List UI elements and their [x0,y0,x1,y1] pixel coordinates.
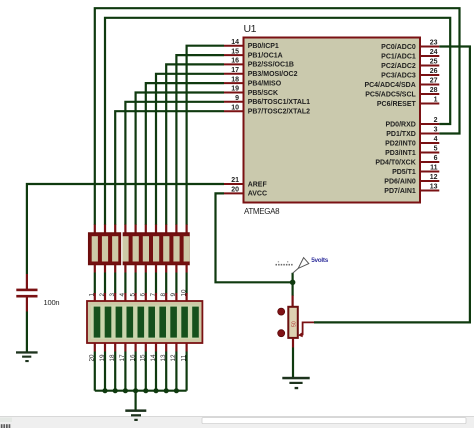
svg-text:13: 13 [160,354,167,362]
svg-text:6: 6 [434,155,438,162]
wire pack pin 1 to PD1/TXD (outer loop) [95,8,460,225]
pin 27 (PC4/ADC4/SDA) stub [364,78,439,89]
svg-text:U1: U1 [244,23,257,35]
wire PB0 to resistor pack pin 10 [187,46,224,225]
svg-text:PB7/TOSC2/XTAL2: PB7/TOSC2/XTAL2 [248,109,310,116]
ground (pot) [282,377,309,389]
resistor pack RN2 body (pins 4-10) [122,233,189,265]
wire PB2 to resistor pack pin 8 [166,64,224,225]
LED bargraph top pin stubs [95,293,187,302]
wire bargraph pin 14 to ground bus [150,352,157,391]
svg-text:17: 17 [231,67,239,74]
svg-text:9: 9 [235,95,239,102]
pin 18 (PB4/MISO) stub [224,76,282,87]
pin 11 (PD5/T1) stub [392,165,439,176]
svg-text:12: 12 [430,174,438,181]
svg-text:28: 28 [430,87,438,94]
svg-text:PD6/AIN0: PD6/AIN0 [384,178,416,185]
ground (bus) [125,409,146,421]
svg-text:5: 5 [434,146,438,153]
svg-text:PB6/TOSC1/XTAL1: PB6/TOSC1/XTAL1 [248,99,310,106]
svg-text:PB3/MOSI/OC2: PB3/MOSI/OC2 [248,71,298,78]
wire junction up to power flag [292,273,294,283]
wire bargraph pin 19 to ground bus [99,352,106,391]
pin 20 (AVCC) stub [224,187,267,198]
svg-text:11: 11 [430,165,438,172]
potentiometer RV1 [278,296,298,348]
wire pack to bargraph pin 10 [180,273,187,297]
svg-text:PC6/RESET: PC6/RESET [377,101,417,108]
svg-text:PD3/INT1: PD3/INT1 [385,150,416,157]
wire PB7 to resistor pack pin 3 [115,111,224,225]
wire junction to pot top [292,282,294,296]
status bar strip [0,417,474,428]
svg-text:PC5/ADC5/SCL: PC5/ADC5/SCL [365,91,416,98]
pin 26 (PC3/ADC3) stub [381,68,439,79]
svg-text:19: 19 [231,86,239,93]
wire pack to bargraph pin 7 [150,273,157,297]
svg-text:16: 16 [129,354,136,362]
wire PB5 to resistor pack pin 5 [136,93,224,226]
wire bargraph pin 16 to ground bus [129,352,136,391]
ground (capacitor) [16,351,38,362]
svg-text:11: 11 [180,354,187,361]
svg-text:1: 1 [434,97,438,104]
wire PB4 to resistor pack pin 6 [146,83,224,225]
svg-text:20: 20 [231,187,239,194]
svg-text:100n: 100n [44,298,60,307]
svg-text:PB2/SS/OC1B: PB2/SS/OC1B [248,62,294,69]
resistor pack RN1 body (pins 1-3) [89,233,121,265]
svg-text:PD0/RXD: PD0/RXD [385,121,415,128]
pin 16 (PB2/SS/OC1B) stub [224,58,294,69]
wire pack to bargraph pin 4 [119,273,126,297]
pin 23 (PC0/ADC0) stub [381,40,439,51]
wire bargraph pin 12 to ground bus [170,352,177,391]
resistor pack RN1 top pin stubs [95,225,187,234]
svg-text:PC3/ADC3: PC3/ADC3 [381,72,416,79]
svg-text:12: 12 [170,354,177,362]
wire pack to bargraph pin 5 [129,273,136,297]
pin 3 (PD1/TXD) stub [386,127,439,138]
wire PB1 to resistor pack pin 9 [176,55,224,225]
pin 21 (AREF) stub [224,177,267,188]
pin 25 (PC2/ADC2) stub [381,59,439,70]
svg-text:19: 19 [99,354,106,362]
svg-text:PB5/SCK: PB5/SCK [248,90,278,97]
svg-text:PD7/AIN1: PD7/AIN1 [384,188,416,195]
pin 2 (PD0/RXD) stub [385,117,439,128]
wire bargraph pin 18 to ground bus [109,352,116,391]
svg-text:PD5/T1: PD5/T1 [392,169,416,176]
svg-text:25: 25 [430,59,438,66]
svg-text:14: 14 [150,354,157,362]
svg-text:PC4/ADC4/SDA: PC4/ADC4/SDA [364,82,415,89]
svg-text:PD2/INT0: PD2/INT0 [385,140,416,147]
svg-text:16: 16 [231,58,239,65]
svg-text:PC2/ADC2: PC2/ADC2 [381,63,416,70]
svg-text:18: 18 [231,76,239,83]
svg-text:3: 3 [434,127,438,134]
wire PB6 to resistor pack pin 4 [125,102,224,225]
ground bus wire [95,390,187,392]
LED bargraph bottom pin stubs [95,343,187,352]
svg-text:18: 18 [109,354,116,362]
pin 6 (PD4/T0/XCK) stub [375,155,439,166]
pin 4 (PD2/INT0) stub [385,136,439,147]
wire bus to ground [135,391,137,410]
hidden net label dots [276,261,293,265]
pin 5 (PD3/INT1) stub [385,146,439,157]
wire pack to bargraph pin 9 [170,273,177,297]
LED bargraph body [87,301,202,343]
pin 17 (PB3/MOSI/OC2) stub [224,67,298,78]
svg-text:5volts: 5volts [311,257,328,264]
svg-text:PC0/ADC0: PC0/ADC0 [381,44,416,51]
IC U1 (ATMEGA8) body [244,38,421,203]
svg-text:ATMEGA8: ATMEGA8 [244,207,280,216]
wire pack to bargraph pin 2 [99,273,106,297]
wire pack to bargraph pin 8 [160,273,167,297]
pin 9 (PB6/TOSC1/XTAL1) stub [224,95,310,106]
capacitor C1 (100n) [16,274,37,312]
svg-text:PD1/TXD: PD1/TXD [386,131,416,138]
pin 1 (PC6/RESET) stub [377,97,439,108]
svg-text:PD4/T0/XCK: PD4/T0/XCK [375,159,415,166]
wire bargraph pin 20 to ground bus [89,352,96,391]
svg-text:2: 2 [434,117,438,124]
wire bargraph pin 13 to ground bus [160,352,167,391]
wire bargraph pin 17 to ground bus [119,352,126,391]
pot wiper arrow and lead [298,322,314,337]
wire bargraph pin 11 to ground bus [180,352,187,391]
pin 24 (PC1/ADC1) stub [381,49,439,60]
pin 28 (PC5/ADC5/SCL) stub [365,87,439,98]
svg-text:20: 20 [89,354,96,362]
svg-text:15: 15 [231,48,239,55]
svg-text:26: 26 [430,68,438,75]
svg-text:AVCC: AVCC [248,191,267,198]
resistor pack RN1 bottom pin stubs [95,265,187,273]
node: pot top junction [290,280,296,286]
pin 14 (PB0/ICP1) stub [224,39,279,50]
wire capacitor to ground [26,312,28,353]
wire pack to bargraph pin 6 [140,273,147,297]
svg-text:PB4/MISO: PB4/MISO [248,80,282,87]
wire pack to bargraph pin 3 [109,273,116,297]
wire pack to bargraph pin 1 [89,273,96,297]
pin 13 (PD7/AIN1) stub [384,184,439,195]
svg-text:13: 13 [430,184,438,191]
svg-text:50: 50 [292,321,298,327]
pin 19 (PB5/SCK) stub [224,86,278,97]
svg-text:24: 24 [430,49,438,56]
svg-text:23: 23 [430,40,438,47]
svg-text:21: 21 [231,177,239,184]
pin 10 (PB7/TOSC2/XTAL2) stub [224,104,310,115]
svg-text:PC1/ADC1: PC1/ADC1 [381,53,416,60]
svg-text:27: 27 [430,78,438,85]
wire AVCC to pot top node [216,193,293,282]
pin 15 (PB1/OC1A) stub [224,48,283,59]
pin 12 (PD6/AIN0) stub [384,174,439,185]
wire AREF to capacitor [27,184,224,274]
svg-text:AREF: AREF [248,181,268,188]
svg-text:PB0/ICP1: PB0/ICP1 [248,43,279,50]
bus junctions [102,388,179,393]
wire pot to ground [292,348,294,378]
svg-text:10: 10 [231,104,239,111]
wire bargraph pin 15 to ground bus [140,352,147,391]
wire PB3 to resistor pack pin 7 [156,74,224,225]
svg-text:15: 15 [140,354,147,362]
svg-text:4: 4 [434,136,438,143]
wire pack pin 2 to PD0/RXD (inner loop) [105,18,450,225]
wire PC0/ADC0 to potentiometer wiper [314,47,470,323]
svg-text:17: 17 [119,354,126,362]
svg-text:PB1/OC1A: PB1/OC1A [248,52,283,59]
power flag 5volts [293,258,309,274]
svg-text:14: 14 [231,39,239,46]
